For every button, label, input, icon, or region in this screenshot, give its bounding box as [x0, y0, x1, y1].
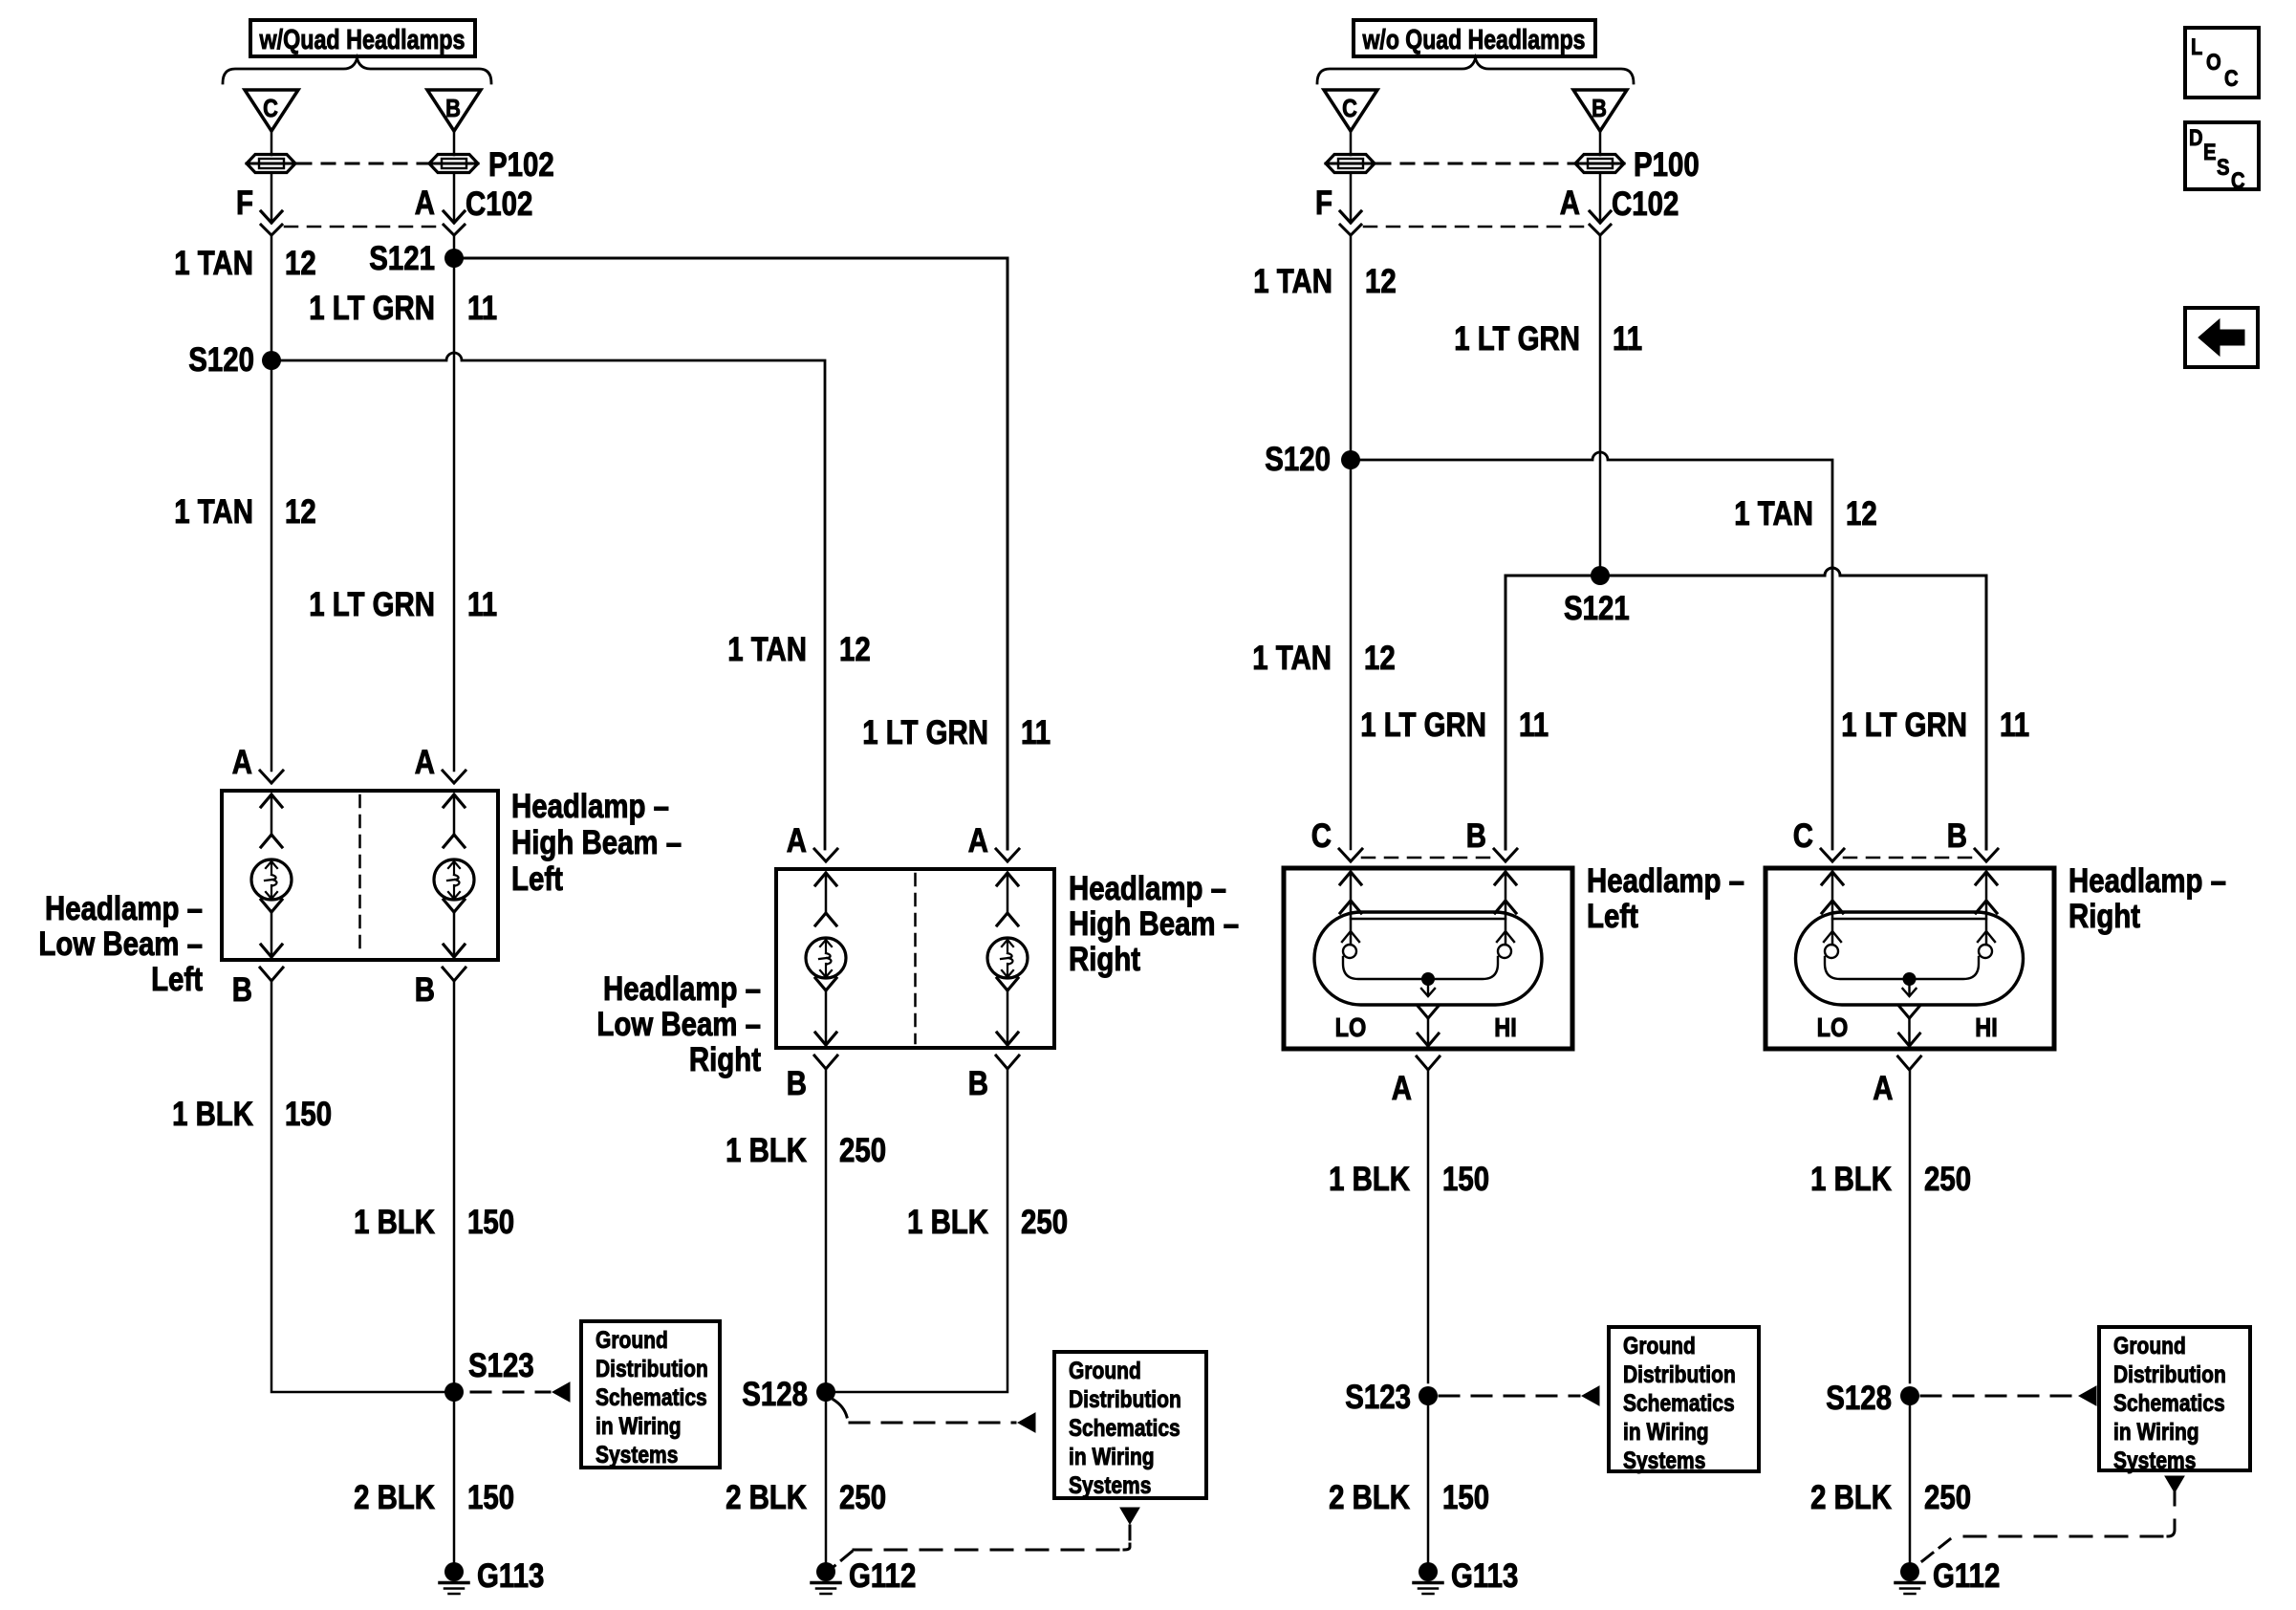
label Headlamp - High Beam - Left — [511, 788, 682, 898]
svg-text:B: B — [1466, 817, 1486, 855]
svg-text:C: C — [263, 94, 278, 122]
dashed link between P102 grommets — [298, 163, 427, 165]
svg-text:L: L — [2191, 34, 2202, 60]
wire label 1 LT GRN 11 (left, mid) — [309, 586, 497, 623]
svg-text:Headlamp –: Headlamp – — [45, 890, 203, 927]
wire 11 S121 down to high-beam-left pin A — [453, 258, 456, 771]
svg-text:C102: C102 — [466, 185, 532, 223]
svg-text:11: 11 — [2000, 707, 2029, 744]
svg-text:Low Beam –: Low Beam – — [38, 925, 203, 963]
headlamp box right (low+high beam) — [776, 869, 1054, 1048]
wire 150 low-beam-left to S123 — [271, 981, 444, 1392]
svg-text:B: B — [1592, 94, 1607, 122]
svg-text:150: 150 — [467, 1204, 514, 1241]
wire S121 to headlamp high-beam-right pin A — [454, 258, 1007, 849]
off-page connector triangle B (left) — [427, 90, 481, 131]
pin A label low-beam-right — [787, 822, 807, 859]
svg-text:B: B — [968, 1065, 988, 1102]
splice S123 (left group) — [444, 1347, 534, 1402]
svg-text:250: 250 — [1021, 1204, 1068, 1241]
svg-text:B: B — [445, 94, 461, 122]
svg-text:Left: Left — [1587, 898, 1638, 935]
svg-text:O: O — [2206, 50, 2221, 76]
wire 250 high-beam-right to S128 — [835, 1069, 1007, 1392]
svg-text:2 BLK: 2 BLK — [726, 1479, 807, 1516]
svg-text:11: 11 — [1519, 707, 1549, 744]
svg-text:Schematics: Schematics — [1069, 1415, 1180, 1442]
svg-text:P102: P102 — [488, 146, 554, 184]
wire label 1 LT GRN 11 (right top) — [1454, 320, 1642, 358]
svg-text:S123: S123 — [468, 1347, 534, 1384]
svg-text:C: C — [1342, 94, 1357, 122]
grommet P100 pin C — [1326, 155, 1375, 173]
connector C102 chevron on wire 11 — [444, 225, 465, 235]
LOC reference box — [2185, 28, 2259, 98]
svg-text:B: B — [787, 1065, 807, 1102]
svg-text:250: 250 — [1924, 1161, 1971, 1198]
svg-text:C: C — [2224, 66, 2239, 92]
svg-text:Headlamp –: Headlamp – — [511, 788, 669, 825]
svg-text:12: 12 — [1364, 640, 1396, 677]
grommet P102 pin B — [429, 155, 478, 173]
svg-text:B: B — [415, 971, 435, 1009]
svg-text:LO: LO — [1817, 1012, 1849, 1042]
low-beam-right bulb element — [806, 873, 846, 1046]
svg-text:A: A — [1560, 185, 1580, 222]
svg-text:S128: S128 — [1826, 1380, 1892, 1417]
pin A chevron high-beam-left — [443, 771, 466, 783]
svg-text:11: 11 — [467, 290, 497, 327]
svg-text:Distribution: Distribution — [2113, 1361, 2226, 1388]
wire grommet to C102 pin F (right) — [1340, 173, 1361, 223]
svg-text:High Beam –: High Beam – — [1069, 905, 1239, 943]
pin B chevron low-beam-left — [260, 968, 283, 981]
wire label 1 LT GRN 11 (headlamp-left branch) — [1360, 707, 1549, 744]
wire 12 S120 down to low-beam-left pin A — [271, 360, 273, 771]
svg-text:A: A — [1392, 1070, 1412, 1107]
svg-text:C102: C102 — [1612, 185, 1679, 223]
svg-text:G113: G113 — [477, 1557, 544, 1595]
wire label 1 BLK 150 (right wire) — [354, 1204, 514, 1241]
wire 2 BLK 250 to G112 (middle) — [825, 1402, 828, 1562]
grommet P100 pin B — [1575, 155, 1624, 173]
back arrow box — [2185, 308, 2258, 367]
svg-text:1 LT GRN: 1 LT GRN — [309, 586, 435, 623]
svg-text:12: 12 — [839, 631, 871, 668]
connector C102 chevron on wire 12 (right) — [1340, 225, 1361, 235]
wire triangle C to grommet (right) — [1350, 131, 1353, 155]
svg-text:Headlamp –: Headlamp – — [1069, 870, 1226, 907]
pin B chevron high-beam-left — [443, 968, 466, 981]
svg-text:1 TAN: 1 TAN — [174, 245, 253, 282]
pin B chevron low-beam-right — [814, 1055, 837, 1069]
wire 250 low-beam-right to S128 — [825, 1069, 828, 1382]
pin B label low-beam-right — [787, 1065, 807, 1102]
pin A label high-beam-right — [968, 822, 988, 859]
svg-text:S128: S128 — [742, 1376, 808, 1413]
wire triangle B to grommet — [453, 131, 456, 155]
label Headlamp - Low Beam - Right — [596, 970, 761, 1078]
svg-text:150: 150 — [467, 1479, 514, 1516]
wire 2 BLK 150 to G113 (left) — [453, 1402, 456, 1562]
svg-text:A: A — [415, 744, 435, 781]
svg-text:A: A — [415, 185, 435, 222]
wire label 1 TAN 12 (right top) — [1253, 263, 1397, 300]
wire 11 C102 to S121 (right) — [1599, 235, 1602, 576]
ground distribution reference box 2 — [1054, 1352, 1206, 1499]
headlamp composite right — [1765, 817, 2226, 1107]
svg-text:12: 12 — [285, 245, 316, 282]
svg-text:E: E — [2203, 140, 2217, 165]
svg-text:Ground: Ground — [1623, 1333, 1696, 1360]
wire label 1 BLK 250 (middle right wire) — [907, 1204, 1068, 1241]
svg-text:250: 250 — [839, 1132, 886, 1169]
high-beam-left bulb element — [434, 794, 474, 958]
wire 2 BLK 250 to G112 (right) — [1909, 1405, 1912, 1562]
svg-text:2 BLK: 2 BLK — [1329, 1479, 1410, 1516]
DESC reference box — [2185, 122, 2259, 194]
pin label F — [236, 185, 253, 222]
pin A chevron high-beam-right — [996, 849, 1019, 861]
svg-text:12: 12 — [1846, 495, 1877, 533]
svg-text:250: 250 — [1924, 1479, 1971, 1516]
svg-text:C: C — [1793, 817, 1813, 855]
dashed reference S123 to ground box 3 — [1440, 1386, 1599, 1405]
svg-text:A: A — [1873, 1070, 1893, 1107]
pin A chevron low-beam-right — [814, 849, 837, 861]
connector branch label box w/Quad Headlamps — [250, 20, 475, 56]
pin B chevron high-beam-right — [996, 1055, 1019, 1069]
wire label 1 TAN 12 (right upper branch) — [1734, 495, 1877, 533]
wire 11 from C102 to S121 — [453, 235, 456, 258]
wire label 2 BLK 150 (right) — [1329, 1479, 1489, 1516]
svg-text:12: 12 — [1365, 263, 1397, 300]
svg-text:G112: G112 — [1933, 1557, 2000, 1595]
svg-text:1 BLK: 1 BLK — [1810, 1161, 1892, 1198]
grommet P102 pin C — [247, 155, 295, 173]
ground distribution reference box 4 — [2099, 1327, 2250, 1474]
svg-text:Low Beam –: Low Beam – — [596, 1006, 761, 1043]
pin label F (right) — [1315, 185, 1332, 222]
pin B label low-beam-left — [232, 971, 252, 1009]
splice S120 (right group) — [1265, 441, 1360, 478]
svg-text:LO: LO — [1335, 1012, 1367, 1042]
svg-text:G113: G113 — [1451, 1557, 1518, 1595]
svg-text:150: 150 — [285, 1096, 332, 1133]
svg-text:S121: S121 — [1564, 590, 1630, 627]
wire label 1 TAN 12 (left, mid) — [174, 493, 316, 531]
svg-text:1 LT GRN: 1 LT GRN — [1841, 707, 1967, 744]
connector C102 chevron on wire 11 (right) — [1590, 225, 1611, 235]
connector branch label box w/o Quad Headlamps — [1354, 20, 1595, 56]
wire grommet to connector C102 pin A — [444, 173, 465, 223]
headlamp composite left — [1284, 817, 1744, 1107]
ground G113 (right group) — [1414, 1557, 1518, 1595]
svg-text:w/Quad Headlamps: w/Quad Headlamps — [259, 25, 466, 55]
svg-text:11: 11 — [467, 586, 497, 623]
off-page connector triangle B (right) — [1573, 90, 1627, 131]
pin B label high-beam-left — [415, 971, 435, 1009]
wire triangle B to grommet (right) — [1599, 131, 1602, 155]
wire label 1 TAN 12 (right, mid) — [1252, 640, 1396, 677]
wire label 1 BLK 250 (right group) — [1810, 1161, 1971, 1198]
svg-text:w/o Quad Headlamps: w/o Quad Headlamps — [1362, 25, 1586, 55]
svg-text:HI: HI — [1494, 1012, 1517, 1042]
wire label 1 BLK 150 (left wire) — [172, 1096, 332, 1133]
svg-text:Schematics: Schematics — [596, 1384, 707, 1411]
svg-text:11: 11 — [1021, 714, 1051, 751]
svg-text:1 TAN: 1 TAN — [1734, 495, 1813, 533]
svg-text:A: A — [968, 822, 988, 859]
svg-text:A: A — [787, 822, 807, 859]
svg-text:Distribution: Distribution — [1623, 1361, 1736, 1388]
pin A label high-beam-left — [415, 744, 435, 781]
svg-text:F: F — [1315, 185, 1332, 222]
svg-text:A: A — [232, 744, 252, 781]
svg-text:1 TAN: 1 TAN — [727, 631, 807, 668]
svg-text:1 LT GRN: 1 LT GRN — [1454, 320, 1580, 358]
wire label 1 LT GRN 11 (upper left) — [309, 290, 497, 327]
wire label 2 BLK 150 (left) — [354, 1479, 514, 1516]
svg-text:in Wiring: in Wiring — [1069, 1444, 1155, 1470]
svg-text:Right: Right — [1069, 941, 1140, 978]
connector C102 chevron on wire 12 — [261, 225, 282, 235]
svg-text:1 TAN: 1 TAN — [174, 493, 253, 531]
dashed connector line C102 (right) — [1364, 226, 1587, 228]
wire 12 from C102 to S120 — [271, 235, 273, 360]
svg-text:1 BLK: 1 BLK — [354, 1204, 435, 1241]
label P102 — [488, 146, 554, 184]
svg-text:HI: HI — [1975, 1012, 1998, 1042]
svg-text:1 LT GRN: 1 LT GRN — [862, 714, 988, 751]
svg-text:1 BLK: 1 BLK — [1329, 1161, 1410, 1198]
ground G112 (middle group) — [812, 1557, 916, 1595]
dashed reference S128 to ground box 4 — [1921, 1386, 2096, 1405]
splice S121 (left group) — [369, 240, 464, 277]
dashed reference ground box 4 to G112 — [1914, 1476, 2184, 1568]
svg-text:Headlamp –: Headlamp – — [603, 970, 761, 1008]
low-beam-left bulb element — [251, 794, 292, 958]
svg-text:Schematics: Schematics — [1623, 1390, 1735, 1417]
svg-text:High Beam –: High Beam – — [511, 824, 682, 861]
svg-text:1 LT GRN: 1 LT GRN — [309, 290, 435, 327]
svg-text:Systems: Systems — [596, 1442, 678, 1469]
svg-text:Ground: Ground — [2113, 1333, 2186, 1360]
svg-text:Systems: Systems — [1623, 1447, 1705, 1474]
svg-text:Ground: Ground — [596, 1327, 668, 1354]
svg-text:150: 150 — [1442, 1161, 1489, 1198]
svg-text:11: 11 — [1613, 320, 1642, 358]
svg-text:Systems: Systems — [2113, 1447, 2196, 1474]
svg-text:Left: Left — [511, 860, 563, 898]
svg-text:2 BLK: 2 BLK — [354, 1479, 435, 1516]
wire grommet to connector C102 pin F — [261, 173, 282, 223]
pin label A (right) — [1560, 185, 1580, 222]
wire 250 headlamp-right A to S128 — [1909, 1070, 1912, 1382]
svg-text:Headlamp –: Headlamp – — [2069, 862, 2226, 900]
wire 150 high-beam-left to S123 — [453, 981, 456, 1382]
wire label 1 LT GRN 11 (headlamp-right branch) — [1841, 707, 2029, 744]
wire label 1 BLK 250 (middle left wire) — [726, 1132, 886, 1169]
ground G113 (left group) — [440, 1557, 544, 1595]
wire 12 C102 to S120 (right) — [1350, 235, 1353, 460]
svg-text:S123: S123 — [1345, 1379, 1411, 1416]
svg-text:in Wiring: in Wiring — [1623, 1419, 1709, 1446]
wire label 1 TAN 12 (upper left) — [174, 245, 316, 282]
label Headlamp - High Beam - Right — [1069, 870, 1239, 978]
wire S120 to headlamp low-beam-right pin A (hop over wire 11) — [271, 353, 825, 849]
svg-text:Headlamp –: Headlamp – — [1587, 862, 1744, 900]
dashed link between P100 grommets — [1377, 163, 1573, 165]
splice S123 (right group) — [1345, 1379, 1438, 1416]
wire 12 S120 down to headlamp-left pin C — [1339, 460, 1362, 861]
pin B label high-beam-right — [968, 1065, 988, 1102]
svg-text:C: C — [1311, 817, 1332, 855]
svg-text:250: 250 — [839, 1479, 886, 1516]
brace under w/Quad Headlamps — [223, 58, 491, 83]
svg-text:2 BLK: 2 BLK — [1810, 1479, 1892, 1516]
splice S128 (right group) — [1826, 1380, 1919, 1417]
wire S120 to headlamp-right pin C (hop over wire 11) — [1351, 452, 1844, 861]
svg-text:Distribution: Distribution — [596, 1356, 708, 1382]
svg-text:Schematics: Schematics — [2113, 1390, 2225, 1417]
high-beam-right bulb element — [987, 873, 1028, 1046]
svg-text:1 BLK: 1 BLK — [907, 1204, 988, 1241]
brace under w/o Quad Headlamps — [1317, 58, 1634, 83]
label C102 — [466, 185, 532, 223]
svg-text:S120: S120 — [188, 341, 254, 379]
label C102 (right) — [1612, 185, 1679, 223]
svg-text:1 BLK: 1 BLK — [726, 1132, 807, 1169]
svg-text:P100: P100 — [1634, 146, 1700, 184]
svg-text:1 TAN: 1 TAN — [1253, 263, 1332, 300]
label Headlamp - Low Beam - Left — [38, 890, 203, 998]
wire label 1 TAN 12 (middle) — [727, 631, 871, 668]
svg-text:Systems: Systems — [1069, 1472, 1151, 1499]
svg-text:1 BLK: 1 BLK — [172, 1096, 253, 1133]
svg-text:C: C — [2231, 168, 2245, 194]
svg-text:S: S — [2217, 155, 2230, 181]
dashed reference S123 to ground box — [471, 1382, 570, 1402]
svg-text:D: D — [2189, 125, 2203, 151]
wire label 2 BLK 250 (right) — [1810, 1479, 1971, 1516]
svg-text:B: B — [1947, 817, 1967, 855]
splice S120 (left group) — [188, 341, 281, 379]
dashed reference S128 to ground box 2 — [834, 1400, 1035, 1432]
svg-text:S120: S120 — [1265, 441, 1331, 478]
wire 2 BLK 150 to G113 (right) — [1427, 1405, 1430, 1562]
svg-text:Ground: Ground — [1069, 1358, 1141, 1384]
wire S121 to headlamp-right pin B (hop over branch wire) — [1600, 568, 1998, 861]
label P100 — [1634, 146, 1700, 184]
svg-text:1 TAN: 1 TAN — [1252, 640, 1332, 677]
svg-text:Distribution: Distribution — [1069, 1386, 1181, 1413]
ground distribution reference box 3 — [1609, 1327, 1759, 1474]
pin A label low-beam-left — [232, 744, 252, 781]
dashed connector line C102 — [285, 226, 441, 228]
svg-text:G112: G112 — [849, 1557, 916, 1595]
svg-text:Right: Right — [2069, 898, 2140, 935]
splice S128 (middle group) — [742, 1376, 835, 1413]
svg-text:S121: S121 — [369, 240, 435, 277]
wire grommet to C102 pin A (right) — [1590, 173, 1611, 223]
svg-text:12: 12 — [285, 493, 316, 531]
wire 150 headlamp-left A to S123 — [1427, 1070, 1430, 1382]
svg-text:F: F — [236, 185, 253, 222]
svg-text:in Wiring: in Wiring — [2113, 1419, 2199, 1446]
wire label 1 BLK 150 (right group) — [1329, 1161, 1489, 1198]
headlamp box left (low+high beam) — [222, 791, 498, 960]
pin label A — [415, 185, 435, 222]
dashed reference ground box 2 to G112 — [829, 1508, 1139, 1571]
svg-text:Right: Right — [689, 1041, 761, 1078]
svg-text:B: B — [232, 971, 252, 1009]
wire S121 to headlamp-left pin B — [1494, 576, 1600, 861]
svg-text:in Wiring: in Wiring — [596, 1413, 682, 1440]
wire triangle C to grommet — [271, 131, 273, 155]
svg-text:1 LT GRN: 1 LT GRN — [1360, 707, 1486, 744]
off-page connector triangle C (left) — [245, 90, 298, 131]
svg-text:Left: Left — [151, 961, 203, 998]
ground G112 (right group) — [1895, 1557, 2000, 1595]
svg-text:150: 150 — [1442, 1479, 1489, 1516]
splice S121 (right group) — [1564, 566, 1630, 627]
off-page connector triangle C (right) — [1324, 90, 1377, 131]
ground distribution reference box 1 — [581, 1321, 720, 1469]
wire label 2 BLK 250 (middle) — [726, 1479, 886, 1516]
pin A chevron low-beam-left — [260, 771, 283, 783]
wire label 1 LT GRN 11 (middle) — [862, 714, 1051, 751]
